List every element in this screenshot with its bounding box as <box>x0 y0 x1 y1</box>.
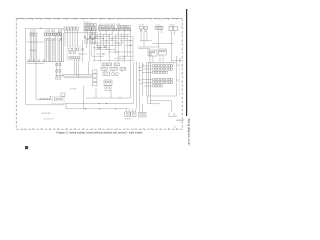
top bus wire <box>62 29 97 33</box>
module M2 <box>104 80 112 98</box>
svg-text:Diagram 3: Typical ancillary c: Diagram 3: Typical ancillary circuits (e… <box>57 132 144 135</box>
connector stack X2 <box>93 70 97 86</box>
terminal column wires <box>55 62 64 77</box>
wires below relay box <box>148 96 160 104</box>
switch pack S1 (left, dashed) <box>30 33 38 37</box>
drops to motor cluster <box>126 98 142 113</box>
relay/fuse box (right) <box>147 63 177 97</box>
relay unit K2 (dashed) <box>67 46 80 60</box>
wire bus to earth right <box>150 101 172 112</box>
strip B internal ticks <box>85 24 95 30</box>
earth terminal E1 <box>169 113 176 117</box>
mid bus wire lower <box>66 104 128 109</box>
wire drops from strip A <box>65 30 78 46</box>
switch unit S4 (dashed) <box>52 96 64 104</box>
plus mark <box>50 96 52 98</box>
relay box internal squares row 2 <box>153 78 173 87</box>
fuse F1 cluster <box>140 26 148 31</box>
svg-text:E1 E2 E3: E1 E2 E3 <box>42 113 51 115</box>
relay box internal verticals <box>149 63 151 96</box>
svg-text:4 2 6 8: 4 2 6 8 <box>70 89 77 91</box>
horizontal connector rail <box>27 61 65 63</box>
switch pack S2 (dashed) <box>44 33 49 36</box>
chapter number block <box>25 146 28 149</box>
harness wire x82.6 <box>82 40 84 62</box>
svg-text:Wiring diagrams 12•27: Wiring diagrams 12•27 <box>187 119 191 147</box>
switch contact strokes <box>30 49 36 52</box>
rail tick squares <box>40 98 50 99</box>
frame tick marks bottom edge <box>24 128 177 129</box>
wires to fuse cluster <box>138 31 160 48</box>
diagonal link <box>62 104 66 105</box>
triple bus wires mid <box>62 74 92 77</box>
rail second line <box>27 63 45 65</box>
right corner wires <box>172 56 182 63</box>
wires crossing into box <box>142 66 153 86</box>
frame tick marks top edge <box>24 19 177 20</box>
wire drops group 2 <box>45 36 56 62</box>
terminal column squares <box>56 63 61 79</box>
relay box internal squares row 1 <box>153 65 173 74</box>
junction dots <box>94 36 131 57</box>
strip C row 1 internal ticks <box>100 26 129 28</box>
svg-text:8 6 4 2 1: 8 6 4 2 1 <box>84 22 91 24</box>
wiring mesh horizontal segments <box>89 34 133 60</box>
wire drops from strip B with inline connectors <box>85 30 95 44</box>
lower-left connector rail <box>38 99 52 101</box>
switch pack S2b (dashed) <box>50 33 56 36</box>
svg-text:M M M: M M M <box>125 118 131 120</box>
stubs bus to switch packs <box>31 29 60 33</box>
instrument drops <box>152 29 174 47</box>
connector strip B row 2 <box>84 28 96 31</box>
svg-text:4Ty: 4Ty <box>52 31 55 33</box>
box-to-dotted stubs <box>177 65 180 80</box>
connector strip C row 2 <box>98 28 130 30</box>
wiring mesh vertical wires <box>90 30 133 62</box>
inline connector squares <box>84 36 96 39</box>
inline connector in mesh b <box>104 46 106 48</box>
inline connector in mesh a <box>99 47 101 49</box>
left block side wires <box>62 29 64 62</box>
strip C row 2 internal ticks <box>100 29 130 31</box>
window motor M4 <box>131 112 136 116</box>
connector strip A (top row left) <box>64 27 78 30</box>
relay box top pin ticks <box>149 63 173 65</box>
instrument symbol (oo) <box>155 26 163 29</box>
wire drops group 3 <box>50 29 62 62</box>
lower feed wires <box>84 86 131 109</box>
svg-text:H33017: H33017 <box>177 120 185 122</box>
long vertical harness wire <box>36 62 38 100</box>
wire with terminals <box>143 62 145 96</box>
inline connector left of M2 <box>61 93 65 97</box>
stubs units to relay box <box>150 55 163 63</box>
spur wire y54 <box>78 40 87 54</box>
wire right column <box>172 31 175 63</box>
connector strip C row 1 <box>98 25 130 27</box>
page edge black bar <box>186 9 187 116</box>
window motor M5 <box>139 113 147 118</box>
vertical feeds to bus <box>74 59 88 78</box>
border frame of diagram page <box>16 19 182 130</box>
rail pin boxes <box>28 60 45 62</box>
module M1 terminal rows <box>101 63 126 76</box>
upper cross wire <box>27 41 45 43</box>
connector strip B row 1 <box>84 24 96 27</box>
K2 pin row <box>69 57 80 59</box>
frame tick marks left edge <box>16 26 17 122</box>
frame tick marks right edge <box>181 26 182 122</box>
relay K1 top right <box>169 26 177 31</box>
switch pack S2b contacts <box>51 33 57 35</box>
junction square on x82.6 <box>82 49 84 51</box>
window motor M3 <box>125 112 130 116</box>
dotted boundary wire <box>179 60 181 96</box>
module M1 row stubs <box>104 66 122 73</box>
control unit U2 <box>158 49 166 55</box>
K2 internal parts <box>69 48 79 54</box>
motor symbols <box>111 73 118 76</box>
control unit U1 <box>148 50 157 56</box>
feed wires into relay box <box>138 67 142 83</box>
contact squares row 2 under S3 <box>58 38 62 40</box>
junction dots lower bus <box>85 98 121 110</box>
contact squares row 2 under S2 <box>45 38 55 40</box>
S4 contacts <box>54 98 62 100</box>
svg-text:4 5 6 1 2 3: 4 5 6 1 2 3 <box>44 118 54 120</box>
long parallel harness wires <box>130 62 139 109</box>
mid bus wire upper <box>66 103 133 105</box>
bottom long bus wire <box>26 104 62 106</box>
main harness box outline left <box>26 28 62 104</box>
svg-text:30 15 X 31 50 19 17 15 58: 30 15 X 31 50 19 17 15 58 <box>99 24 120 26</box>
switch pack S2 contacts <box>45 33 49 35</box>
wire drops group 1 <box>30 36 36 61</box>
switch pack S1 contacts <box>30 33 36 35</box>
module M1 internal ticks <box>102 64 124 75</box>
switch pack S3 <box>57 33 61 36</box>
